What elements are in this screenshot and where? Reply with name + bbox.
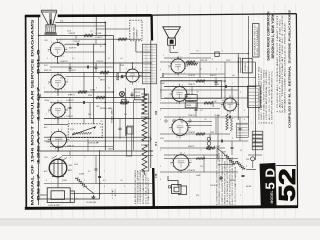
switch S1 box lower xyxy=(185,102,197,108)
wire loop to gang xyxy=(57,181,59,188)
svg-text:.05: .05 xyxy=(204,119,207,121)
svg-text:4. LOOP IS ANTENNA, NO GND.: 4. LOOP IS ANTENNA, NO GND. xyxy=(265,68,268,124)
electrolytic C10 xyxy=(251,157,255,161)
svg-text:47M: 47M xyxy=(160,138,164,140)
wire row y199 xyxy=(39,198,100,200)
svg-text:8: 8 xyxy=(244,119,245,121)
resistor R19 vertical xyxy=(226,114,228,130)
svg-text:4: 4 xyxy=(112,198,113,200)
wire R8 tail xyxy=(86,187,94,193)
tube V8 6SS7 socket xyxy=(172,120,188,136)
svg-text:250M: 250M xyxy=(160,83,165,85)
ground symbol G2 xyxy=(220,176,222,178)
svg-text:.05: .05 xyxy=(96,142,99,144)
svg-text:3: 3 xyxy=(48,51,49,53)
socket voltage mini table xyxy=(237,124,248,126)
svg-text:100M: 100M xyxy=(90,90,95,92)
wire V1 down xyxy=(57,57,59,64)
resistor R12 xyxy=(204,102,213,104)
svg-text:WITH SET IN OPERATION, NO SIGN: WITH SET IN OPERATION, NO SIGNAL xyxy=(229,159,232,205)
svg-text:3: 3 xyxy=(47,58,48,60)
wire row y141 xyxy=(44,140,151,142)
svg-text:3: 3 xyxy=(48,112,49,114)
svg-text:MODEL 5A2: MODEL 5A2 xyxy=(133,26,136,38)
wire bus x248 xyxy=(247,16,249,131)
svg-text:4: 4 xyxy=(51,74,52,76)
svg-text:2. ALIGN I.F. TRANSFORMERS AT: 2. ALIGN I.F. TRANSFORMERS AT 456 KC xyxy=(279,18,282,113)
resistor R8 diagonal xyxy=(76,178,87,188)
svg-text:.02: .02 xyxy=(196,92,199,94)
svg-text:6: 6 xyxy=(67,108,68,110)
wire bus x93 xyxy=(92,44,94,124)
speaker SP1 base bar xyxy=(44,32,56,34)
svg-text:P.M. DYNAMIC: P.M. DYNAMIC xyxy=(256,25,259,56)
tube V6 12SQ7 socket xyxy=(171,59,185,73)
capacitor C1 xyxy=(76,43,78,46)
svg-text:SUP 87: SUP 87 xyxy=(69,48,77,50)
svg-text:6: 6 xyxy=(68,121,69,123)
svg-text:1: 1 xyxy=(163,55,164,57)
svg-text:4. CONDENSER VALUES IN MFD. UN: 4. CONDENSER VALUES IN MFD. UNLESS MARKE… xyxy=(216,148,219,205)
wire row y124 xyxy=(44,123,68,125)
capacitor C4 xyxy=(82,101,84,104)
svg-text:6. OUTPUT METER ACROSS V.C.: 6. OUTPUT METER ACROSS V.C. xyxy=(270,69,273,124)
capacitor C2 xyxy=(86,66,88,69)
svg-text:SW B: SW B xyxy=(186,105,192,107)
IF can tall rectangle left xyxy=(126,127,132,156)
wire V1 plate row xyxy=(56,38,141,40)
divider rule below top border xyxy=(150,15,153,40)
svg-text:LAMP: LAMP xyxy=(135,95,141,98)
svg-text:5: 5 xyxy=(124,186,125,188)
loop antenna lead frame xyxy=(70,191,74,202)
wire V1 cathode row xyxy=(65,43,106,45)
svg-text:COM 23: COM 23 xyxy=(188,170,195,172)
resistor R13 xyxy=(196,133,205,135)
svg-text:150: 150 xyxy=(246,159,249,161)
svg-text:.1: .1 xyxy=(100,100,102,102)
wire terminal leads xyxy=(254,150,256,160)
svg-text:.05: .05 xyxy=(196,51,199,53)
svg-text:4: 4 xyxy=(126,69,127,71)
tube V7 12SA7 socket xyxy=(172,87,187,102)
wire row y146 xyxy=(50,146,113,148)
svg-text:TOM 23: TOM 23 xyxy=(188,115,195,117)
svg-text:3: 3 xyxy=(221,106,222,108)
tube V2 12SQ7 socket xyxy=(51,75,65,89)
svg-text:.05 MF: .05 MF xyxy=(214,115,221,117)
svg-text:.05 MF 600: .05 MF 600 xyxy=(86,202,97,204)
phono jack J1 box xyxy=(172,185,181,194)
svg-text:2: 2 xyxy=(160,92,161,94)
wire V1 grid row xyxy=(39,35,114,37)
speaker SP1 cone rim xyxy=(41,9,56,11)
svg-text:B+: B+ xyxy=(100,46,102,48)
tube V3 12SA7 socket xyxy=(51,103,65,117)
speckle value labels mid region xyxy=(160,51,252,198)
wire row y74 xyxy=(164,73,225,75)
svg-text:.01: .01 xyxy=(98,78,101,80)
svg-text:35: 35 xyxy=(222,100,224,102)
switch wafer contact circles xyxy=(207,137,211,141)
wire bus x125 xyxy=(125,88,127,136)
resistor R3 xyxy=(100,71,109,73)
border frame top rule thick segment left of speaker xyxy=(25,15,41,18)
wire bus x238 xyxy=(237,54,239,121)
svg-text:7: 7 xyxy=(160,100,161,102)
ballast resistor R9 striped block xyxy=(142,44,156,84)
capacitor C3 xyxy=(120,75,122,78)
svg-text:LOOP A TRK: LOOP A TRK xyxy=(48,204,60,207)
svg-text:3: 3 xyxy=(123,77,124,79)
tube V4 6SS7 socket xyxy=(51,132,67,148)
speaker SP1 spider centre xyxy=(49,13,51,24)
svg-text:150: 150 xyxy=(200,166,203,168)
svg-text:47: 47 xyxy=(200,69,202,71)
jack terminal circle xyxy=(168,186,171,189)
component drop wires mid region xyxy=(192,62,242,172)
svg-text:3: 3 xyxy=(100,127,101,129)
svg-text:5: 5 xyxy=(160,150,161,152)
wire V2 stem xyxy=(57,89,59,96)
wire short rows mid-low xyxy=(186,121,212,123)
svg-text:3: 3 xyxy=(216,69,217,71)
small part box mid xyxy=(127,126,133,134)
divider rule bottom centre xyxy=(152,168,155,208)
resistor R5 xyxy=(96,96,105,98)
svg-text:COMPILED BY M. N. BEITMAN, SU: COMPILED BY M. N. BEITMAN, SUPREME PUBLI… xyxy=(287,10,291,128)
svg-text:4: 4 xyxy=(240,92,241,94)
model label black bar MODEL 5D xyxy=(260,163,277,208)
resistor R10 xyxy=(188,63,198,65)
svg-text:OSC: OSC xyxy=(68,165,73,167)
tiny circle row upper xyxy=(165,120,167,122)
svg-text:3: 3 xyxy=(171,164,172,166)
svg-text:6: 6 xyxy=(160,179,161,181)
svg-text:117: 117 xyxy=(200,110,203,112)
svg-text:2: 2 xyxy=(228,119,229,121)
svg-text:5: 5 xyxy=(60,40,61,42)
svg-text:PILOT: PILOT xyxy=(135,92,141,94)
svg-text:0.1: 0.1 xyxy=(72,58,75,60)
phono jack J1 stepped wire xyxy=(168,176,187,195)
speaker SP2 magnet xyxy=(168,38,176,45)
svg-text:5: 5 xyxy=(61,129,62,131)
svg-text:COM 27: COM 27 xyxy=(95,37,103,39)
svg-text:1. CHECK ALL TUBES AND PILOT L: 1. CHECK ALL TUBES AND PILOT LAMP FIRST xyxy=(276,13,279,113)
svg-text:1: 1 xyxy=(160,119,161,121)
wire bus x99 lower xyxy=(99,150,101,199)
svg-text:2: 2 xyxy=(176,137,177,139)
svg-text:52: 52 xyxy=(274,168,300,202)
svg-text:SPEAKER FIELD: SPEAKER FIELD xyxy=(253,24,256,55)
svg-text:40 MF: 40 MF xyxy=(246,186,252,188)
svg-text:2: 2 xyxy=(222,51,223,53)
svg-text:MODEL: MODEL xyxy=(270,190,274,203)
component drop wires left region xyxy=(69,36,134,184)
svg-text:3: 3 xyxy=(169,96,170,98)
wire bus x133 xyxy=(133,100,135,150)
svg-text:SPEAKER CONE AND GRILLE 5. RE: SPEAKER CONE AND GRILLE 5. REPLACE xyxy=(283,21,286,113)
antenna lead arrow xyxy=(105,22,151,24)
loop antenna L1 outer xyxy=(47,188,70,203)
volume control R7 potentiometer xyxy=(72,127,96,135)
wire bus x150 xyxy=(150,41,152,169)
svg-text:1: 1 xyxy=(235,111,236,113)
pilot lamp box label xyxy=(134,89,144,100)
svg-text:12SA7: 12SA7 xyxy=(44,99,49,102)
wire top area vertical x96 xyxy=(95,16,97,36)
svg-text:5: 5 xyxy=(184,152,185,154)
svg-text:.1: .1 xyxy=(240,69,242,71)
svg-text:CHASSIS: CHASSIS xyxy=(136,29,139,38)
resistor R1 xyxy=(84,34,93,36)
wire bus x113 xyxy=(112,36,114,151)
svg-text:4: 4 xyxy=(51,42,52,44)
svg-text:5: 5 xyxy=(135,67,136,69)
wire row y137 xyxy=(44,136,151,138)
svg-text:1: 1 xyxy=(76,198,77,200)
svg-text:5: 5 xyxy=(232,96,233,98)
svg-text:2: 2 xyxy=(160,166,161,168)
capacitor C5 xyxy=(98,175,101,177)
tube V1 50L6 socket xyxy=(51,43,65,57)
svg-text:220M: 220M xyxy=(79,174,84,176)
svg-text:6: 6 xyxy=(244,110,245,112)
wire row y155 xyxy=(62,155,153,157)
wire row y193 xyxy=(70,193,153,195)
svg-text:COM 23: COM 23 xyxy=(60,61,68,63)
svg-text:.1: .1 xyxy=(200,150,202,152)
IF can outline rectangle xyxy=(161,81,222,99)
svg-text:1: 1 xyxy=(184,73,185,75)
svg-text:600: 600 xyxy=(124,114,127,116)
svg-text:354: 354 xyxy=(162,72,165,77)
svg-text:PLUG: PLUG xyxy=(248,66,250,71)
svg-text:2: 2 xyxy=(54,58,55,60)
svg-text:47M 2T: 47M 2T xyxy=(188,146,195,148)
svg-text:6: 6 xyxy=(67,80,68,82)
wire lower right links xyxy=(217,148,225,155)
svg-text:SUP 23: SUP 23 xyxy=(44,70,52,72)
loop antenna L1 inner xyxy=(51,191,65,200)
svg-text:22M: 22M xyxy=(46,142,50,144)
border frame top rule thin segment xyxy=(152,14,297,15)
speaker SP1 voice coil magnet block xyxy=(46,25,55,33)
capacitor C6 xyxy=(224,85,226,88)
border frame top rule thick segment right of speaker xyxy=(58,14,152,17)
scan bottom edge shadow strip xyxy=(0,219,320,226)
svg-text:22M: 22M xyxy=(88,95,92,97)
wire nested corners top right xyxy=(239,58,241,73)
svg-text:6: 6 xyxy=(160,69,161,71)
tube V9 50L6 socket xyxy=(173,155,189,171)
svg-text:3: 3 xyxy=(160,110,161,112)
wire bus x255 xyxy=(254,62,256,150)
small part box mid 2 xyxy=(122,100,127,105)
resistor R6 xyxy=(120,101,129,103)
resistor R20 vertical xyxy=(230,118,232,131)
wire bus x105 xyxy=(104,23,106,151)
svg-text:BROOKLYN 1, NEW YORK: BROOKLYN 1, NEW YORK xyxy=(271,13,275,59)
wire mid rows between tubes xyxy=(160,77,255,79)
switch S1 box upper xyxy=(185,95,197,101)
parts table box xyxy=(253,24,259,58)
wire V3 stem xyxy=(57,117,59,124)
svg-text:.1: .1 xyxy=(84,157,86,159)
svg-text:IT 4: IT 4 xyxy=(155,141,158,146)
wire row y90 xyxy=(160,89,238,91)
svg-text:6: 6 xyxy=(189,92,190,94)
svg-text:22M: 22M xyxy=(210,132,214,134)
gang trimmer marks xyxy=(52,176,64,178)
wire row y151 xyxy=(39,150,154,152)
wire row y98 xyxy=(164,97,248,99)
ground symbol G1 xyxy=(92,195,94,197)
wire V6 rows xyxy=(164,57,211,59)
svg-text:6. A.C. OR D.C. 117 VOLT LINE: 6. A.C. OR D.C. 117 VOLT LINE SUPPLY xyxy=(231,156,234,205)
svg-text:TOM 22: TOM 22 xyxy=(73,41,81,43)
svg-text:VIEWED FROM FRONT OF CHASSIS: VIEWED FROM FRONT OF CHASSIS xyxy=(223,160,226,205)
svg-text:25L6: 25L6 xyxy=(67,31,71,33)
speckle value labels left region xyxy=(44,31,127,201)
svg-text:2: 2 xyxy=(54,119,55,121)
wire V5 stem xyxy=(132,63,134,69)
resistor R17 xyxy=(186,61,195,63)
svg-text:.02: .02 xyxy=(90,31,93,33)
svg-text:2: 2 xyxy=(70,149,71,151)
bleed-through column lines xyxy=(41,4,296,218)
dial cord diagonal dashes xyxy=(52,156,57,159)
tube V10 rectifier socket xyxy=(224,98,237,111)
svg-text:COM 4T: COM 4T xyxy=(188,132,196,134)
wire bus x218 xyxy=(217,115,219,160)
svg-text:GANG: GANG xyxy=(108,148,114,151)
svg-text:COM 4T: COM 4T xyxy=(68,70,76,72)
svg-text:1400: 1400 xyxy=(74,164,78,166)
wire top area y22 right segment xyxy=(150,22,152,24)
coil caps xyxy=(141,93,149,95)
IF transformer T2 coil lower xyxy=(142,145,147,171)
svg-text:117V: 117V xyxy=(226,60,231,62)
svg-text:3. SET DIAL HIGH FREQ. END: 3. SET DIAL HIGH FREQ. END xyxy=(263,69,266,124)
ballast ticks xyxy=(145,44,147,84)
svg-text:.25: .25 xyxy=(100,121,103,123)
wire top-middle drop xyxy=(135,41,137,52)
wire left bus xyxy=(38,16,40,205)
svg-text:4. ALL RESISTORS 1/2 WATT UNLE: 4. ALL RESISTORS 1/2 WATT UNLESS xyxy=(134,169,137,204)
svg-text:3: 3 xyxy=(232,138,233,140)
svg-text:4: 4 xyxy=(70,157,71,159)
resistor R16 diagonal xyxy=(236,161,245,169)
svg-text:6: 6 xyxy=(46,180,47,182)
svg-text:2: 2 xyxy=(129,83,130,85)
capacitor C7 xyxy=(228,116,230,119)
svg-text:5. ALL VOLTAGES AT SOCKET PINS: 5. ALL VOLTAGES AT SOCKET PINS TO B- xyxy=(226,154,229,205)
svg-text:.05: .05 xyxy=(232,75,235,77)
svg-text:TOM 23: TOM 23 xyxy=(96,61,104,63)
svg-text:3: 3 xyxy=(168,67,169,69)
svg-text:2: 2 xyxy=(84,180,85,182)
svg-text:PHONO: PHONO xyxy=(210,185,217,187)
wire V2 rows xyxy=(39,72,151,74)
wire speaker leads to plate xyxy=(50,34,52,37)
speaker SP2 cone xyxy=(163,27,181,38)
svg-text:12M: 12M xyxy=(44,40,48,42)
svg-text:6: 6 xyxy=(66,47,67,49)
svg-text:3: 3 xyxy=(169,129,170,131)
wire SP2 leads xyxy=(169,45,171,52)
resistor R14 xyxy=(206,147,215,149)
svg-text:SW: SW xyxy=(196,195,199,197)
svg-text:SW A: SW A xyxy=(186,97,191,100)
svg-text:22: 22 xyxy=(108,88,110,90)
svg-text:1: 1 xyxy=(63,56,64,58)
speaker SP1 funnel sides xyxy=(42,12,49,25)
svg-text:6. DIAL LAMP NO. 47: 6. DIAL LAMP NO. 47 xyxy=(147,177,150,204)
svg-text:.02: .02 xyxy=(120,180,123,182)
svg-text:5: 5 xyxy=(183,117,184,119)
svg-text:7: 7 xyxy=(104,171,105,173)
wire row y67 xyxy=(50,66,113,68)
svg-text:4: 4 xyxy=(246,166,247,168)
svg-text:5. A.C.-D.C. 117 VOLT SUPPLY: 5. A.C.-D.C. 117 VOLT SUPPLY xyxy=(268,70,271,124)
chassis note dashed box xyxy=(130,20,142,41)
svg-text:3: 3 xyxy=(104,186,105,188)
wire row y158 xyxy=(164,158,238,160)
svg-text:1123: 1123 xyxy=(213,101,215,107)
svg-text:V.C.: V.C. xyxy=(60,21,64,23)
svg-text:1: 1 xyxy=(232,83,233,85)
svg-text:4: 4 xyxy=(51,131,52,133)
wire row y63 xyxy=(39,62,151,64)
border frame bottom rule xyxy=(25,207,298,209)
svg-text:6: 6 xyxy=(96,88,97,90)
capacitor C9 xyxy=(242,174,245,176)
svg-text:ANT 23: ANT 23 xyxy=(114,190,117,196)
oscillator coil L2 xyxy=(142,94,147,114)
svg-text:35Z5 GT: 35Z5 GT xyxy=(200,60,208,62)
wire top area y29 xyxy=(96,28,130,30)
svg-text:TOM 27: TOM 27 xyxy=(188,84,195,86)
svg-text:MEG: MEG xyxy=(100,80,105,82)
wire V1 pin leads xyxy=(65,51,105,53)
svg-text:2: 2 xyxy=(124,100,125,102)
svg-text:47M: 47M xyxy=(120,65,124,67)
capacitor C8 xyxy=(220,140,222,143)
svg-text:1T5: 1T5 xyxy=(155,173,158,178)
svg-text:47: 47 xyxy=(108,58,110,60)
svg-text:5. VOLTAGES MEASURED TO CHASSI: 5. VOLTAGES MEASURED TO CHASSIS xyxy=(139,169,142,204)
svg-text:3: 3 xyxy=(48,84,49,86)
small component box top right xyxy=(242,58,252,73)
svg-text:MANUAL OF 1946 MOST POPULAR SE: MANUAL OF 1946 MOST POPULAR SERVICE DIAG… xyxy=(31,19,35,206)
svg-text:20: 20 xyxy=(240,150,242,152)
resistor R15 diagonal xyxy=(225,155,236,165)
svg-text:1: 1 xyxy=(138,82,139,84)
pilot lamp PL1 xyxy=(119,91,124,96)
svg-text:6: 6 xyxy=(191,160,192,162)
svg-text:TRIM: TRIM xyxy=(62,180,67,182)
tuning gang VC1 xyxy=(49,159,67,177)
wire bus x225 xyxy=(224,62,226,110)
volume control R7 dashed enclosure xyxy=(68,124,102,138)
svg-text:6: 6 xyxy=(141,73,142,75)
wire can leads xyxy=(252,161,254,168)
svg-text:6: 6 xyxy=(238,102,239,104)
svg-text:1: 1 xyxy=(46,114,47,116)
wire row y62 xyxy=(160,61,255,63)
